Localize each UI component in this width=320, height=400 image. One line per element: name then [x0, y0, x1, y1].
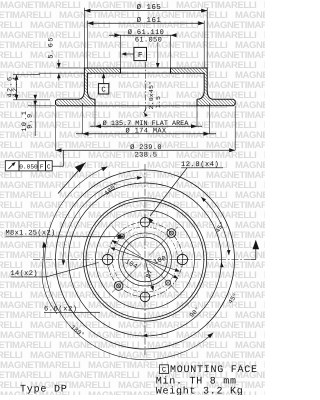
plate bottom edge through bore	[121, 72, 171, 74]
svg-text:238.5: 238.5	[135, 151, 158, 159]
dim Ø135.7 MIN FLAT AREA	[94, 106, 96, 127]
FCF connection to dim line	[52, 165, 63, 167]
dim Ø165	[84, 10, 207, 12]
svg-text:C: C	[47, 163, 51, 170]
dim 10.1/9.9 disc thickness	[28, 105, 55, 107]
svg-text:Ø 161: Ø 161	[137, 16, 162, 25]
ring inner bore silhouette line	[95, 105, 197, 107]
bottom view: vertical centerline	[144, 164, 146, 355]
svg-text:1.5: 1.5	[155, 96, 162, 108]
svg-text:42.4: 42.4	[12, 76, 20, 98]
feature control frame runout 0.050 F C	[5, 161, 52, 171]
hole Ø6.6 lower-right	[166, 280, 171, 285]
svg-text:Type DP: Type DP	[20, 384, 68, 395]
dim Ø174 MAX	[82, 103, 84, 134]
hole Ø12.8 bottom	[140, 292, 150, 302]
plate top edge through bore	[121, 67, 171, 69]
mounting face note	[160, 365, 169, 374]
M8 label leader arrow	[72, 235, 119, 238]
svg-text:Ø 165: Ø 165	[137, 3, 162, 12]
view direction arrow right	[251, 259, 256, 261]
svg-text:F: F	[40, 163, 44, 170]
datum C box	[98, 84, 108, 94]
svg-text:9.9: 9.9	[27, 112, 35, 128]
svg-text:C: C	[101, 86, 106, 94]
hole Ø14 left	[102, 254, 112, 264]
disc section right half (hatched)	[171, 68, 236, 106]
bolt circle (dash-dot)	[108, 222, 183, 297]
angular arc 180/45 outer (R100)	[45, 167, 214, 360]
section centerline	[145, 62, 147, 112]
centre bore Ø61	[123, 237, 168, 282]
dim 5.65 plate thickness	[56, 67, 84, 69]
dim Ø161	[87, 22, 204, 24]
big view arrow	[58, 163, 86, 194]
dim 100 diameter line	[111, 248, 179, 271]
threaded hole M8 top-right	[169, 231, 173, 235]
svg-text:2.0x45°: 2.0x45°	[148, 81, 155, 110]
spigot circle Ø68	[119, 233, 172, 286]
angular arc 45 upper-right (R84)	[201, 197, 229, 255]
dim 87	[145, 260, 153, 290]
svg-text:MOUNTING FACE: MOUNTING FACE	[170, 365, 258, 376]
svg-text:Weight 3.2 Kg: Weight 3.2 Kg	[156, 386, 244, 395]
angular arc 180 upper-left (R82)	[63, 178, 142, 266]
svg-text:C: C	[162, 367, 166, 375]
hat outer circle	[83, 198, 206, 321]
svg-text:Ø 174 MAX: Ø 174 MAX	[126, 128, 167, 136]
swept area inner circle	[69, 183, 222, 336]
threaded hole M8 bottom-left	[117, 284, 121, 288]
disc section left half (hatched)	[56, 68, 121, 106]
radial centerlines	[149, 227, 178, 256]
hole Ø6.6 upper-left	[119, 234, 124, 239]
leader 61.050 to mounting plate	[157, 43, 159, 68]
6.6 holes circle Ø87 (dash-dot)	[112, 227, 177, 292]
flat area circle	[96, 210, 195, 309]
svg-text:Min. TH 8 mm: Min. TH 8 mm	[156, 375, 237, 387]
dim 104 diameter line	[113, 241, 178, 278]
svg-text:0.050: 0.050	[19, 163, 38, 170]
datum F box	[134, 47, 147, 60]
svg-text:5.65: 5.65	[47, 36, 55, 59]
arrows on R76.5 circle (90 deg dim)	[142, 334, 147, 338]
bottom view: horizontal centerline	[33, 259, 251, 261]
dim Ø239.0 / 238.5	[55, 106, 57, 150]
curved leader	[42, 244, 57, 314]
dim Ø61.110/61.050	[109, 34, 177, 36]
outer circle Ø239	[56, 170, 235, 349]
hat inner circle	[86, 201, 204, 319]
hole Ø14 right	[177, 254, 187, 264]
dim 42.6/42.4	[13, 74, 40, 76]
hole Ø12.8 top	[140, 217, 150, 227]
svg-text:F: F	[138, 52, 143, 60]
